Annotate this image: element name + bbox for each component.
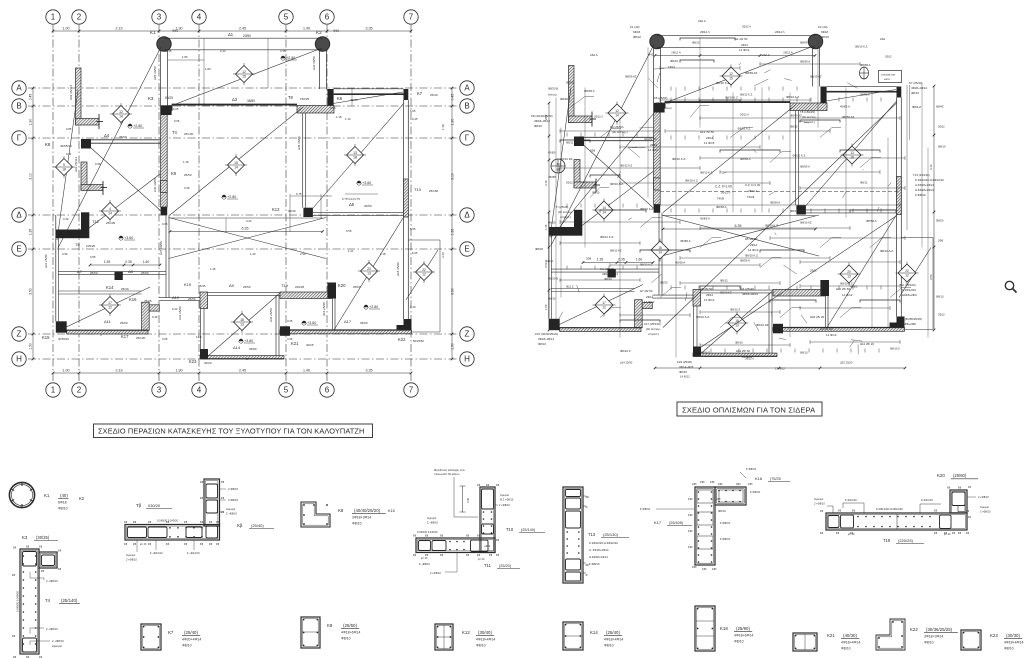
svg-text:K6 (25/60): K6 (25/60) (654, 96, 668, 100)
svg-text:Φ8/10 Κ.Ζ.: Φ8/10 Κ.Ζ. (793, 154, 807, 158)
svg-text:2Φ8: 2Φ8 (586, 257, 592, 261)
diagonal D7 (582, 172, 653, 226)
vertical extension lines right plan (556, 38, 928, 358)
svg-text:K1 (40): K1 (40) (630, 25, 640, 29)
svg-text:1.40: 1.40 (303, 368, 310, 372)
svg-text:3Φ18+3Φ14: 3Φ18+3Φ14 (924, 635, 943, 639)
svg-text:45/Φ5 Α: 45/Φ5 Α (700, 217, 710, 221)
svg-text:2 +Φ8/10: 2 +Φ8/10 (46, 627, 58, 631)
svg-text:(25/60): (25/60) (953, 473, 967, 478)
wall bottom-right (773, 328, 905, 332)
svg-text:Φ8/10 ΚΖ: Φ8/10 ΚΖ (720, 291, 732, 295)
svg-text:3Φ14+Φ05: 3Φ14+Φ05 (679, 365, 694, 369)
svg-text:Φ8/10 ΚΖ: Φ8/10 ΚΖ (756, 323, 769, 327)
svg-text:Φ8/10: Φ8/10 (911, 91, 919, 95)
svg-text:Σ +Φ8/10: Σ +Φ8/10 (419, 562, 431, 566)
svg-text:στηλοπ.): στηλοπ.) (804, 120, 815, 124)
svg-text:1.35: 1.35 (104, 260, 111, 264)
svg-text:K18: K18 (720, 626, 728, 631)
svg-text:Φ8/10: Φ8/10 (938, 145, 946, 149)
svg-text:(40): (40) (60, 493, 68, 498)
svg-text:4Φ20+4Φ14: 4Φ20+4Φ14 (182, 638, 201, 642)
column K1 round (157, 37, 171, 51)
svg-text:0.75 0.23 0.75: 0.75 0.23 0.75 (342, 197, 360, 201)
svg-text:Αγκυρια: Αγκυρια (980, 506, 989, 509)
svg-text:0.98: 0.98 (330, 106, 336, 110)
svg-text:Φ8/10 Κ.Ζ.: Φ8/10 Κ.Ζ. (765, 224, 779, 228)
svg-text:3.35: 3.35 (280, 49, 286, 53)
svg-text:1.18: 1.18 (336, 115, 342, 119)
svg-text:Κ:2Φ12/20 Ω:2Φ12/20: Κ:2Φ12/20 Ω:2Φ12/20 (876, 507, 903, 511)
svg-text:6Φ18: 6Φ18 (58, 501, 67, 505)
svg-text:K19: K19 (184, 282, 192, 287)
svg-text:6: 6 (325, 13, 330, 22)
svg-text:T12: T12 (92, 219, 100, 224)
svg-text:Δ10 25/ 50: Δ10 25/ 50 (836, 287, 850, 291)
svg-text:14: 14 (119, 115, 123, 119)
svg-text:Δ10: Δ10 (172, 295, 180, 300)
svg-text:Δ12 25/ 20: Δ12 25/ 20 (860, 342, 874, 346)
diagonal D12 (57, 90, 78, 240)
svg-text:1.50: 1.50 (544, 304, 548, 310)
svg-text:12: 12 (905, 274, 909, 278)
svg-text:2Φ8: 2Φ8 (938, 239, 944, 243)
column K8 (81, 139, 91, 149)
wall left west (549, 213, 552, 319)
svg-text:Φ8/10 Κ.Ζ.: Φ8/10 Κ.Ζ. (745, 254, 759, 258)
diagonal D13 (91, 148, 161, 211)
svg-text:14 Φ/12: 14 Φ/12 (842, 293, 853, 297)
section K18 (695, 606, 753, 651)
svg-text:2Φ12: 2Φ12 (706, 293, 714, 297)
svg-text:25/140: 25/140 (184, 132, 194, 136)
svg-text:6Φ18: 6Φ18 (821, 30, 829, 34)
svg-text:Φ8/59 ΑΣ: Φ8/59 ΑΣ (625, 75, 637, 79)
svg-text:75/25: 75/25 (144, 299, 152, 303)
svg-text:Φ8/10 Κ.Ζ.: Φ8/10 Κ.Ζ. (672, 157, 686, 161)
svg-text:20: 20 (367, 267, 371, 271)
diagonal D8 top strip (823, 90, 896, 102)
svg-text:22: 22 (905, 269, 909, 273)
svg-text:Φ8/10: Φ8/10 (924, 641, 934, 645)
svg-text:Φ8/59 Α: Φ8/59 Α (866, 219, 877, 223)
svg-text:Φ8/12: Φ8/12 (860, 181, 868, 185)
svg-text:K15 (40/40/25/20): K15 (40/40/25/20) (535, 332, 558, 336)
svg-text:3.35: 3.35 (366, 26, 373, 30)
section K22 L (876, 619, 958, 650)
svg-text:2 Φ8/10: 2 Φ8/10 (228, 498, 238, 502)
svg-text:K2: K2 (316, 30, 322, 35)
svg-text:E: E (464, 245, 469, 254)
svg-text:0.98: 0.98 (95, 162, 101, 166)
svg-text:Κα (25/50): Κα (25/50) (610, 125, 624, 129)
svg-text:Τ40Φ: Τ40Φ (747, 195, 755, 199)
svg-text:(Ωt λεπτομ.: (Ωt λεπτομ. (646, 327, 661, 331)
svg-text:14 Φ/12: 14 Φ/12 (648, 148, 659, 152)
svg-text:1.45: 1.45 (210, 267, 216, 271)
svg-text:2.43: 2.43 (220, 49, 226, 53)
diagonal D6 (551, 285, 643, 329)
beam K14 row (58, 291, 142, 294)
svg-text:K1: K1 (150, 30, 156, 35)
svg-text:Φ8/59 Α: Φ8/59 Α (716, 205, 727, 209)
svg-text:Δ8: Δ8 (128, 269, 134, 274)
svg-text:+2.80: +2.80 (369, 305, 378, 309)
svg-text:22: 22 (422, 268, 426, 272)
svg-text:14 Φ/12: 14 Φ/12 (826, 333, 837, 337)
svg-text:Δ14 25/ 50: Δ14 25/ 50 (736, 349, 750, 353)
svg-text:λεπτομ: λεπτομ (548, 93, 557, 97)
section K9 (301, 617, 360, 648)
diagonal D3 (663, 105, 796, 213)
svg-text:Δ35 35/80: Δ35 35/80 (297, 136, 301, 150)
svg-text:Μεγεθυνση καταληψη υπο-: Μεγεθυνση καταληψη υπο- (434, 468, 465, 472)
svg-text:6Φ18: 6Φ18 (633, 30, 641, 34)
svg-text:2Φ12 Λ: 2Φ12 Λ (742, 25, 751, 29)
svg-text:Φ8/12 ΚΖ: Φ8/12 ΚΖ (610, 249, 622, 253)
svg-text:12: 12 (602, 306, 606, 310)
beam D31 (694, 306, 698, 347)
svg-text:4Φ8: 4Φ8 (688, 498, 693, 501)
svg-text:K9: K9 (327, 623, 333, 628)
svg-text:T13: T13 (588, 532, 596, 537)
svg-text:2Φ12 Α: 2Φ12 Α (671, 51, 681, 55)
svg-text:1.90: 1.90 (176, 368, 183, 372)
svg-text:1.50: 1.50 (29, 343, 33, 350)
column K15 (56, 321, 67, 332)
svg-text:+2.80: +2.80 (286, 56, 295, 60)
svg-text:2Φ8 Α: 2Φ8 Α (566, 227, 574, 231)
svg-text:Φ8/59 Α: Φ8/59 Α (860, 63, 871, 67)
svg-text:K17: K17 (121, 334, 129, 339)
svg-text:K7: K7 (168, 630, 174, 635)
svg-text:(25/40): (25/40) (251, 523, 264, 528)
svg-text:2Φ12: 2Φ12 (938, 125, 945, 129)
svg-text:Φ8/10: Φ8/10 (1004, 647, 1014, 651)
dim 6.35 (662, 224, 817, 230)
svg-text:K2: K2 (79, 496, 85, 501)
svg-text:ΣΧΕΔΙΟ ΠΕΡΑΣΙΩΝ ΚΑΤΑΣΚΕΥΗΣ: ΣΧΕΔΙΟ ΠΕΡΑΣΙΩΝ ΚΑΤΑΣΚΕΥΗΣ ΤΟΥ ΞΥΛΟΤΥΠΟΥ… (98, 427, 364, 436)
wall T4 hatched (654, 104, 661, 213)
svg-text:0.05: 0.05 (162, 222, 168, 226)
svg-text:2: 2 (77, 386, 82, 395)
annotation texts right plan (531, 19, 944, 374)
wall notch hatched (142, 302, 160, 330)
svg-text:στηλοπ.): στηλοπ.) (560, 215, 571, 219)
wall upper-left hatched (569, 66, 597, 127)
svg-text:2Φ12: 2Φ12 (650, 143, 658, 147)
svg-text:στηλοπ.): στηλοπ.) (648, 332, 659, 336)
svg-text:Αγκυρια: Αγκυρια (126, 553, 136, 557)
svg-text:Δ16 25/90: Δ16 25/90 (322, 302, 326, 316)
svg-text:Φ8/10: Φ8/10 (735, 341, 743, 345)
wall upper-left hatched (76, 68, 104, 129)
svg-text:0.23: 0.23 (172, 307, 178, 311)
beam D5 (313, 212, 404, 215)
svg-text:2Δ2 Α: 2Δ2 Α (698, 19, 706, 23)
svg-text:75/45: 75/45 (198, 284, 206, 288)
svg-text:15: 15 (729, 77, 733, 81)
svg-text:7: 7 (409, 13, 414, 22)
wall T12 black (56, 212, 90, 238)
wall left second hatched (574, 160, 600, 193)
beam D33 (769, 293, 772, 353)
grid axes left plan (28, 25, 459, 383)
svg-text:(25/40): (25/40) (606, 630, 620, 635)
svg-text:4Φ18+4Φ14: 4Φ18+4Φ14 (742, 292, 758, 296)
svg-text:4: 4 (197, 13, 202, 22)
svg-text:(220/25): (220/25) (898, 538, 914, 543)
svg-text:(25/50): (25/50) (343, 623, 357, 628)
svg-text:Κια (25/40): Κια (25/40) (600, 267, 614, 271)
svg-text:030/20: 030/20 (148, 503, 161, 508)
svg-text:Φ8/12 Κ.Ζ.: Φ8/12 Κ.Ζ. (740, 93, 753, 97)
ellipse marker right plan (860, 67, 869, 79)
svg-text:Φ8/59 Α: Φ8/59 Α (740, 157, 751, 161)
svg-text:Δ1 20/ 50: Δ1 20/ 50 (735, 37, 748, 41)
section T6 L wall (124, 479, 274, 562)
svg-text:Γ: Γ (465, 134, 470, 143)
svg-text:στηλοπου): στηλοπου) (658, 106, 672, 110)
svg-text:1.00: 1.00 (63, 368, 70, 372)
svg-text:Φ8/10 Ζ: Φ8/10 Ζ (730, 308, 740, 312)
beam D1 (164, 38, 323, 50)
svg-text:2 +Φ8/10: 2 +Φ8/10 (980, 511, 991, 514)
svg-text:18: 18 (62, 168, 66, 172)
svg-text:K21: K21 (827, 633, 835, 638)
column D30 hatched (161, 180, 168, 192)
beam D10 (159, 298, 200, 301)
svg-text:(40/40/25/20): (40/40/25/20) (354, 508, 381, 513)
svg-text:Φ8/20 Β: Φ8/20 Β (548, 87, 558, 91)
svg-text:4: 4 (197, 386, 202, 395)
svg-text:Σ:Φ8/10: Σ:Φ8/10 (915, 193, 926, 197)
svg-text:K7: K7 (417, 91, 423, 96)
svg-text:2 +Φ8/10: 2 +Φ8/10 (814, 502, 825, 506)
svg-text:Φ8/59 Α: Φ8/59 Α (675, 261, 685, 265)
svg-text:Z: Z (17, 330, 22, 339)
svg-text:30/40: 30/40 (288, 209, 296, 213)
wall T12 black (549, 210, 583, 236)
title box reinforcement plan (677, 402, 822, 416)
svg-text:3.50: 3.50 (29, 288, 33, 295)
svg-text:Φ8/10: Φ8/10 (821, 35, 829, 39)
svg-text:4Φ8: 4Φ8 (688, 514, 693, 517)
svg-text:12: 12 (242, 70, 246, 74)
svg-text:K22: K22 (910, 627, 918, 632)
svg-text:2.19: 2.19 (116, 368, 123, 372)
svg-text:0.40: 0.40 (466, 497, 470, 503)
svg-text:25/60: 25/60 (120, 321, 128, 325)
svg-text:T13: T13 (414, 187, 422, 192)
svg-text:3.10: 3.10 (929, 164, 933, 170)
section K21 (793, 633, 860, 651)
svg-text:Φ8/10 Ζ: Φ8/10 Ζ (890, 347, 900, 351)
svg-text:35/90: 35/90 (119, 135, 127, 139)
svg-text:Φ8/10: Φ8/10 (182, 644, 192, 648)
svg-text:3.50: 3.50 (929, 274, 933, 280)
svg-text:A: A (464, 84, 470, 93)
svg-text:K14: K14 (106, 285, 114, 290)
svg-text:25/50: 25/50 (184, 173, 192, 177)
svg-text:105/25: 105/25 (86, 244, 96, 248)
extension lines left plan (168, 38, 378, 232)
svg-text:25/50: 25/50 (90, 271, 98, 275)
bent leaders right plan (570, 97, 911, 328)
svg-text:K16: K16 (755, 476, 763, 481)
svg-text:Δ:4Φ18+2Φ14: Δ:4Φ18+2Φ14 (589, 555, 608, 559)
svg-text:Αγκυρια: Αγκυρια (500, 494, 509, 497)
svg-text:Φ8/12: Φ8/12 (720, 279, 728, 283)
svg-text:1.40: 1.40 (303, 26, 310, 30)
svg-text:1.35: 1.35 (450, 229, 454, 236)
svg-text:5.65: 5.65 (410, 227, 416, 231)
svg-text:Φ8/59 ΑΖ: Φ8/59 ΑΖ (790, 114, 802, 118)
svg-text:Φ8/59: Φ8/59 (566, 81, 574, 85)
svg-text:(Ωt λεπτομ.): (Ωt λεπτομ.) (612, 130, 628, 134)
svg-text:2Φ12: 2Φ12 (750, 243, 758, 247)
svg-text:15: 15 (242, 75, 246, 79)
section K14 (563, 622, 623, 650)
svg-text:K8: K8 (45, 142, 51, 147)
svg-text:40/55/40: 40/55/40 (58, 337, 69, 341)
svg-text:4Φ8: 4Φ8 (748, 483, 753, 486)
svg-text:0.40: 0.40 (63, 217, 69, 221)
column K12 (303, 208, 313, 217)
column K3 (161, 105, 173, 115)
beam D25 (654, 48, 661, 104)
svg-text:Δ4: Δ4 (104, 133, 110, 138)
svg-text:Δ17: Δ17 (344, 319, 352, 324)
column K7 (897, 87, 902, 98)
svg-text:Tια (25/100): Tια (25/100) (900, 283, 916, 287)
svg-text:4Φ8: 4Φ8 (702, 568, 707, 571)
svg-text:Δ4 25/ 50: Δ4 25/ 50 (644, 137, 657, 141)
svg-text:4Φ8: 4Φ8 (688, 546, 693, 549)
svg-text:Φ8/10: Φ8/10 (604, 644, 614, 648)
beam row A (827, 86, 897, 91)
svg-text:4Φ8: 4Φ8 (700, 481, 705, 484)
svg-text:25/50: 25/50 (243, 285, 251, 289)
wall notch hatched (635, 300, 653, 328)
svg-text:Τ40Φ: Τ40Φ (717, 197, 725, 201)
svg-text:17: 17 (108, 301, 112, 305)
svg-text:+Φ20: +Φ20 (484, 545, 491, 548)
svg-text:3.50: 3.50 (544, 262, 548, 268)
svg-text:Φ8/59 Α: Φ8/59 Α (800, 60, 810, 64)
svg-text:50/25: 50/25 (165, 96, 173, 100)
svg-text:2Φ12 Λ: 2Φ12 Λ (740, 113, 749, 117)
svg-text:1.10: 1.10 (345, 117, 351, 121)
dimension chain right (450, 87, 454, 361)
svg-text:25/40: 25/40 (430, 93, 438, 97)
svg-text:K1: K1 (44, 493, 50, 498)
svg-text:25/40: 25/40 (121, 287, 129, 291)
svg-text:Α:4Φ18+2Φ14: Α:4Φ18+2Φ14 (915, 183, 934, 187)
svg-text:2Φ12 Α: 2Φ12 Α (783, 51, 793, 55)
svg-text:0.81: 0.81 (66, 152, 72, 156)
svg-text:K16: K16 (129, 297, 137, 302)
svg-text:Κ:2Φ12/20 Ω:2Φ12/20: Κ:2Φ12/20 Ω:2Φ12/20 (589, 541, 618, 545)
svg-text:1.30: 1.30 (450, 119, 454, 126)
dimension chains right plan (544, 51, 935, 370)
svg-text:2Φ12: 2Φ12 (646, 295, 654, 299)
svg-text:Κ.2Φ12/20: Κ.2Φ12/20 (902, 288, 916, 292)
wall bottom-right (280, 330, 412, 334)
svg-text:45/Φ5: 45/Φ5 (850, 285, 858, 289)
svg-text:Φ8/4.Ζ: Φ8/4.Ζ (912, 105, 921, 109)
svg-text:(25/140): (25/140) (521, 528, 536, 532)
svg-text:Δ34 30/50: Δ34 30/50 (312, 56, 316, 70)
svg-text:(40/30): (40/30) (843, 633, 857, 638)
column K15 (549, 319, 560, 330)
section T19 K20 (814, 473, 991, 544)
svg-text:150/25: 150/25 (300, 97, 310, 101)
svg-text:K22: K22 (398, 337, 406, 342)
position marker circle right plan (551, 159, 565, 173)
section K23 (961, 630, 1023, 651)
svg-text:(Ωt λεπτομ.: (Ωt λεπτομ. (802, 115, 817, 119)
svg-text:Δ14 25/50: Δ14 25/50 (620, 361, 633, 365)
svg-text:14: 14 (108, 212, 112, 216)
svg-text:Κ:240/20 0:240/20: Κ:240/20 0:240/20 (417, 531, 438, 534)
svg-text:B: B (16, 102, 21, 111)
column K1 round (650, 34, 664, 48)
svg-text:1.00: 1.00 (63, 26, 70, 30)
svg-text:12: 12 (615, 109, 619, 113)
long diagonals right plan (551, 103, 897, 353)
svg-text:14 Φ/12: 14 Φ/12 (748, 248, 759, 252)
svg-text:Φ8/20: Φ8/20 (560, 97, 568, 101)
svg-text:Δ30 30/60: Δ30 30/60 (153, 178, 157, 192)
svg-text:ΣΗΚΩΜΑ ΤΩΝ: ΣΗΚΩΜΑ ΤΩΝ (881, 74, 896, 77)
svg-text:Φ Σ +Φ8/10: Φ Σ +Φ8/10 (500, 499, 514, 502)
svg-text:14: 14 (658, 251, 662, 255)
svg-text:Φ8/59 ΑΣ: Φ8/59 ΑΣ (745, 71, 758, 75)
svg-text:3.35: 3.35 (366, 368, 373, 372)
svg-text:0.45: 0.45 (412, 117, 418, 121)
column K21 (280, 326, 290, 336)
svg-text:Σ +Φ8/10: Σ +Φ8/10 (226, 512, 238, 516)
svg-text:3.10: 3.10 (29, 173, 33, 180)
svg-text:35/80: 35/80 (247, 99, 255, 103)
diagonal D13 (584, 146, 654, 209)
beam D25 (161, 50, 168, 106)
svg-text:Φ8/10: Φ8/10 (534, 124, 542, 128)
svg-text:K15: K15 (388, 509, 395, 513)
svg-text:K12: K12 (272, 207, 280, 212)
corridor line (663, 215, 816, 217)
svg-text:στυλωματα ΤΩ φθηση: στυλωματα ΤΩ φθηση (434, 472, 460, 476)
svg-text:14 Φ/12: 14 Φ/12 (742, 355, 753, 359)
svg-text:4Φ8: 4Φ8 (692, 483, 697, 486)
svg-text:Σ:Φ8/10: Σ:Φ8/10 (720, 537, 731, 541)
svg-text:0.55: 0.55 (90, 255, 96, 259)
section K7 (141, 624, 201, 650)
wall bottom-left (560, 328, 641, 332)
callout rules right plan (560, 60, 905, 347)
svg-text:Δ:4Φ18+2Φ14: Δ:4Φ18+2Φ14 (915, 188, 934, 192)
svg-text:Δ2Σ 25/20: Δ2Σ 25/20 (840, 361, 853, 365)
svg-text:2 Φ8/10: 2 Φ8/10 (228, 487, 238, 491)
svg-text:K21: K21 (291, 341, 299, 346)
svg-text:3.10: 3.10 (544, 180, 548, 186)
column K2 round (315, 37, 329, 51)
svg-text:25/60: 25/60 (350, 98, 358, 102)
svg-text:220/25: 220/25 (295, 285, 305, 289)
svg-text:25/50: 25/50 (141, 271, 149, 275)
diagonal D1 (58, 47, 161, 248)
